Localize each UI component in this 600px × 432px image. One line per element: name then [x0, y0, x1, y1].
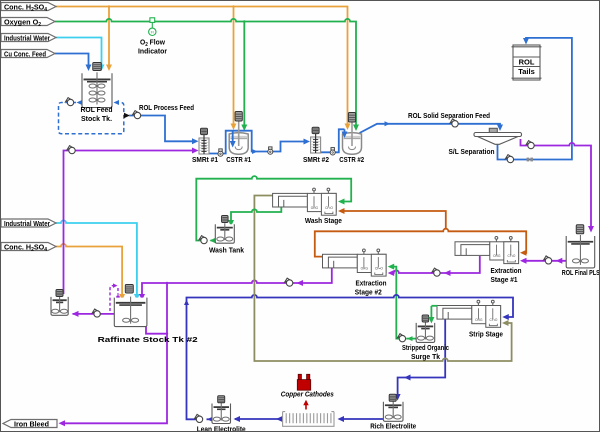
flag Cu Conc Feed — [1, 50, 55, 58]
red arrow to cathodes — [305, 404, 307, 410]
svg-text:Stage #2: Stage #2 — [355, 287, 382, 296]
reactor CSTR #1 — [229, 133, 248, 155]
line wash stage underflow to wash tank — [231, 207, 281, 222]
svg-text:Conc. H2SO4: Conc. H2SO4 — [4, 2, 47, 13]
svg-text:ORG: ORG — [311, 206, 319, 210]
line recycle raffinate to SMRt1 — [64, 151, 196, 295]
svg-text:Stock Tk.: Stock Tk. — [81, 114, 112, 123]
svg-text:ROL Final PLS: ROL Final PLS — [562, 268, 600, 277]
motor raffinate tank — [125, 285, 133, 294]
svg-text:SMRt #1: SMRt #1 — [192, 155, 218, 164]
flag Industrial Water bottom — [1, 219, 56, 227]
device on CSTR2 feed — [330, 148, 335, 155]
line raffinate tank to recycle tank — [73, 313, 115, 315]
svg-text:Extraction: Extraction — [356, 278, 387, 287]
svg-text:CF•O: CF•O — [325, 206, 333, 210]
drum ROL Tails — [512, 45, 542, 80]
mixer-settler Extraction Stage 1 — [455, 237, 519, 264]
flag Conc H2SO4 bottom — [1, 243, 56, 251]
line conc H2SO4 to raffinate tank — [56, 244, 122, 296]
flag Industrial Water top — [1, 34, 56, 42]
tank Lean Electrolite — [212, 404, 231, 424]
line organic to wash stage — [343, 211, 446, 229]
wire raffinate tank bottom to bleed line — [146, 327, 167, 334]
flag Conc H2SO4 top — [1, 3, 56, 11]
pump thickener underflow — [506, 155, 514, 163]
line strip stage to rich electrolyte tank — [398, 319, 446, 397]
pump recycle raffinate — [67, 146, 75, 154]
pump ext2 raffinate — [285, 278, 293, 286]
tank raffinate recycle — [51, 297, 68, 315]
svg-text:Extraction: Extraction — [491, 266, 522, 275]
dashed recirculation loop ROL Feed tank — [59, 103, 124, 134]
mixer-settler Strip Stage — [437, 300, 501, 327]
svg-text:Surge Tk: Surge Tk — [411, 352, 441, 361]
dashed alternate return to raffinate tank — [110, 286, 115, 311]
static mixer SMRt #2 — [311, 137, 321, 153]
line Cu conc feed to ROL Feed tank — [55, 54, 89, 68]
svg-text:CF•O: CF•O — [375, 267, 383, 271]
svg-text:Wash Stage: Wash Stage — [305, 216, 342, 225]
pump lean electrolyte — [195, 414, 203, 422]
svg-text:Industrial Water: Industrial Water — [4, 33, 50, 42]
pump ext1 to ext2 — [432, 268, 440, 276]
pump wash tank — [199, 236, 207, 244]
svg-text:Rich Electrolite: Rich Electrolite — [370, 421, 416, 430]
svg-text:ORG: ORG — [493, 254, 501, 258]
motor CSTR1 agitator — [235, 112, 242, 122]
pump ROL process feed — [133, 111, 141, 119]
line industrial water to raffinate tank — [56, 220, 137, 296]
line wash water supply to wash stage — [196, 176, 351, 240]
pump thickener overflow — [526, 141, 534, 149]
electrowinning cell — [283, 412, 334, 427]
svg-text:SMRt #2: SMRt #2 — [303, 155, 329, 164]
line surge tank to pump — [406, 338, 416, 340]
tank ROL Final PLS — [566, 236, 595, 268]
wire O2 drop to CSTR1 — [243, 22, 245, 127]
line EW cell to lean electrolyte tank — [235, 418, 283, 420]
pump ROL final PLS — [544, 256, 552, 264]
tank Rich Electrolite — [383, 402, 403, 422]
line ROL solid separation feed — [360, 124, 501, 133]
motor ROL feed tank agitator — [93, 63, 102, 71]
svg-text:Indicator: Indicator — [138, 47, 167, 56]
svg-text:ORG: ORG — [361, 267, 369, 271]
svg-text:ROL Process Feed: ROL Process Feed — [139, 103, 194, 112]
flag Iron Bleed — [3, 420, 57, 428]
reactor CSTR #2 — [343, 133, 362, 155]
svg-text:CF•O: CF•O — [489, 318, 497, 322]
svg-text:FI: FI — [151, 30, 154, 34]
flag Oxygen O2 — [1, 18, 55, 26]
line ROL final PLS to extraction stage 1 — [524, 260, 566, 262]
motor SMRt1 — [201, 128, 208, 134]
copper cathodes symbol — [297, 374, 310, 390]
motor ROL final PLS — [576, 225, 584, 234]
line thickener overflow to ROL Final PLS — [521, 139, 592, 228]
thickener S/L Separation — [474, 128, 522, 144]
line wash tank to pump — [211, 240, 216, 242]
tank Raffinate Stock Tk 2 — [114, 298, 147, 327]
wire feed drop into CSTR1 — [232, 131, 234, 144]
svg-text:CF•O: CF•O — [507, 254, 515, 258]
device on CSTR1 outlet — [268, 147, 273, 154]
motor wash tank — [222, 216, 229, 223]
line ext2 raffinate to raffinate stock tank — [142, 267, 332, 296]
line SMRt2 to CSTR2 — [320, 129, 344, 152]
svg-text:Strip Stage: Strip Stage — [469, 330, 503, 339]
pump solid separation feed — [450, 119, 458, 127]
svg-text:CSTR #2: CSTR #2 — [339, 155, 364, 164]
line stripped organic to ext2 — [392, 267, 399, 339]
device on CSTR1 feed — [218, 149, 223, 156]
line lean electrolyte to strip stage — [187, 295, 514, 419]
tank ROL Feed Stock Tk — [82, 73, 112, 107]
static mixer SMRt #1 — [199, 138, 209, 154]
svg-text:Conc. H2SO4: Conc. H2SO4 — [4, 242, 47, 253]
svg-text:S/L Separation: S/L Separation — [449, 147, 495, 156]
motor recycle tank — [56, 290, 63, 297]
line thickener underflow to ROL Tails — [498, 38, 572, 160]
wire H2SO4 drop to ROL Feed tank — [108, 7, 110, 68]
inline valve marks on underflow line — [527, 158, 533, 162]
line industrial water to ROL Feed tank — [56, 38, 102, 68]
instrument O2 flow indicator — [149, 18, 156, 36]
black connector arrow at dashed box exit — [124, 113, 130, 119]
wire feed drop into CSTR2 — [344, 129, 346, 133]
svg-text:Raffinate Stock Tk #2: Raffinate Stock Tk #2 — [98, 335, 198, 344]
line ext1 aqueous to ext2 — [391, 256, 480, 273]
motor lean tank — [218, 396, 225, 403]
green arrow strip organic into surge tank — [430, 306, 432, 320]
svg-text:ROL Solid Separation Feed: ROL Solid Separation Feed — [408, 111, 490, 120]
svg-text:Lean Electrolite: Lean Electrolite — [197, 424, 246, 432]
svg-text:Iron Bleed: Iron Bleed — [14, 419, 49, 428]
svg-text:Oxygen O2: Oxygen O2 — [4, 17, 41, 28]
tank Stripped Organic Surge Tk — [416, 323, 435, 343]
pump raffinate recycle — [92, 309, 100, 317]
motor surge tank — [422, 315, 429, 322]
motor rich tank — [389, 394, 396, 401]
line CSTR1 circuit to SMRt2 — [209, 131, 306, 154]
svg-text:Industrial Water: Industrial Water — [4, 219, 50, 228]
pump recirculation — [66, 98, 74, 106]
motor CSTR2 agitator — [348, 113, 355, 123]
line lean tank to pump — [207, 418, 212, 420]
line rich electrolyte to EW cell — [340, 418, 383, 420]
svg-text:Stripped Organic: Stripped Organic — [402, 343, 449, 352]
svg-text:Cu Conc. Feed: Cu Conc. Feed — [4, 49, 46, 58]
mixer-settler Extraction Stage 2 — [323, 249, 387, 276]
line ext2 organic header — [315, 229, 526, 257]
line raffinate to iron bleed — [62, 283, 167, 423]
svg-text:CSTR #1: CSTR #1 — [226, 155, 251, 164]
svg-text:ROL Feed: ROL Feed — [81, 105, 113, 114]
svg-text:Tails: Tails — [518, 67, 535, 76]
pump stripped organic — [398, 334, 406, 342]
line ROL Process Feed — [129, 116, 195, 142]
line wash organic to strip stage — [254, 196, 511, 362]
svg-text:ROL: ROL — [519, 58, 535, 67]
svg-text:ORG: ORG — [475, 318, 483, 322]
svg-text:Wash Tank: Wash Tank — [209, 245, 245, 254]
tank Wash Tank — [215, 224, 234, 243]
wire H2SO4 drop to CSTR1 — [233, 7, 235, 126]
line oxygen O2 header — [55, 19, 356, 127]
mixer-settler Wash Stage — [273, 188, 337, 215]
motor SMRt2 — [312, 127, 319, 133]
svg-text:Copper Cathodes: Copper Cathodes — [281, 389, 334, 398]
line conc H2SO4 header — [56, 7, 348, 126]
svg-text:Stage #1: Stage #1 — [491, 275, 518, 284]
